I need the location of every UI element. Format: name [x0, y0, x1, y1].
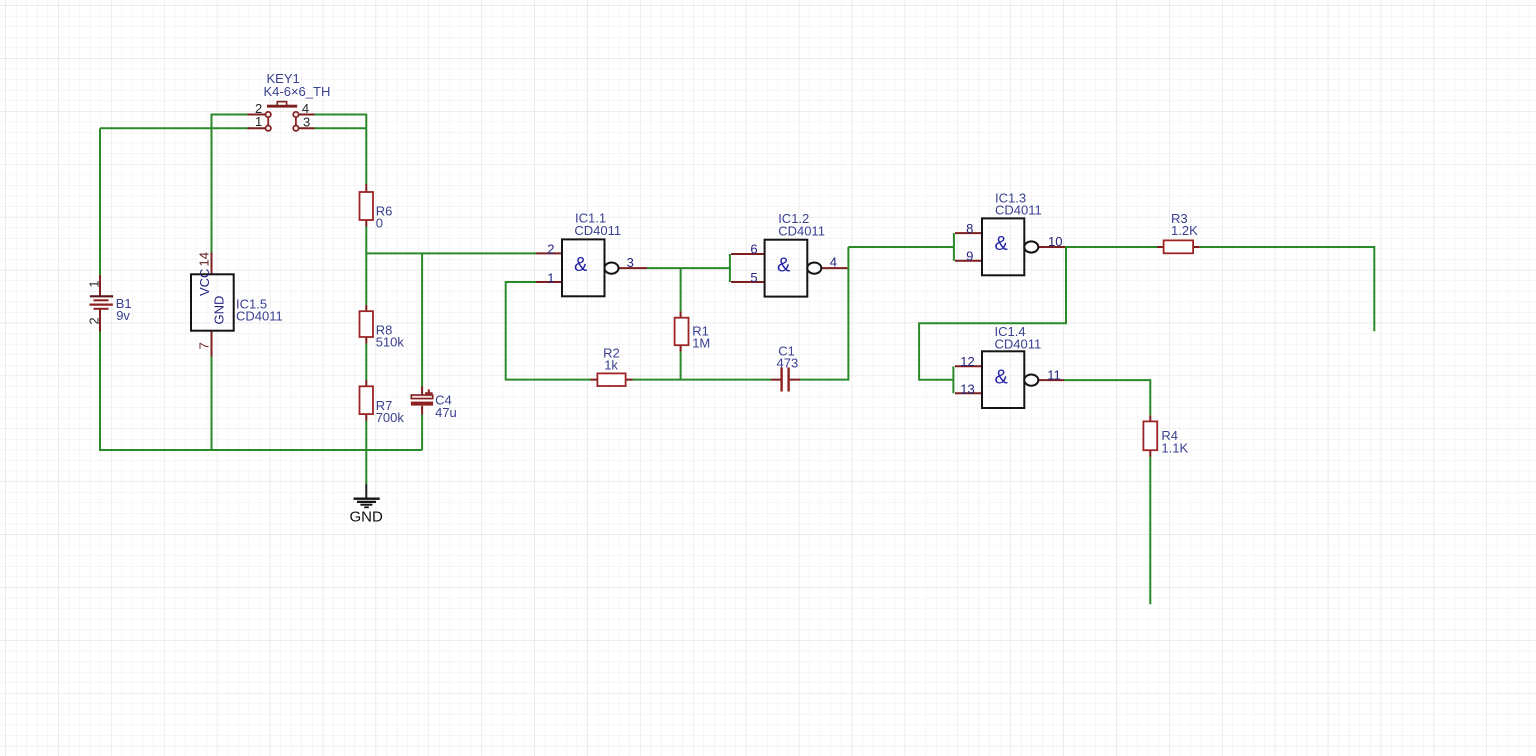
svg-text:CD4011: CD4011 [995, 203, 1042, 218]
KEY1 pole links [268, 117, 296, 125]
wire KEY1 pin2 riser [212, 115, 251, 129]
svg-text:0: 0 [376, 215, 383, 230]
svg-text:2: 2 [547, 242, 554, 257]
svg-text:1: 1 [87, 280, 102, 287]
NAND gate IC1.4 [953, 324, 1064, 408]
svg-text:1k: 1k [604, 358, 618, 373]
svg-text:CD4011: CD4011 [236, 309, 283, 324]
svg-text:473: 473 [777, 356, 799, 371]
svg-text:&: & [995, 366, 1009, 388]
pushbutton KEY1 [248, 71, 331, 131]
svg-text:8: 8 [966, 221, 973, 236]
wire R6 top feed [365, 128, 367, 184]
svg-text:13: 13 [960, 381, 974, 396]
wire IC1.5 pin7 to rail [211, 357, 213, 451]
svg-text:GND: GND [350, 509, 384, 526]
wire IC1.3 out to IC1.4 in [919, 247, 1066, 380]
svg-text:5: 5 [750, 270, 757, 285]
battery B1 [87, 275, 132, 332]
svg-text:1.2K: 1.2K [1171, 223, 1198, 238]
resistor R4 [1143, 415, 1188, 456]
NAND gate IC1.2 [730, 211, 848, 297]
KEY1 pin stubs [248, 115, 315, 129]
svg-text:700k: 700k [376, 410, 405, 425]
wire GND branch [365, 450, 367, 484]
wire R6 to node [365, 227, 367, 306]
svg-text:9: 9 [966, 249, 973, 264]
wire C4 branch [421, 253, 423, 450]
capacitor C1 [771, 344, 800, 392]
svg-text:2: 2 [87, 317, 102, 324]
svg-text:10: 10 [1048, 234, 1062, 249]
wire R4 to J1 [1149, 457, 1151, 605]
svg-text:GND: GND [212, 296, 227, 325]
KEY1 button bar [267, 105, 297, 108]
svg-text:&: & [995, 233, 1009, 255]
wire R2 to node [633, 379, 681, 381]
NAND gate IC1.3 [954, 190, 1065, 275]
wire R3 to LED column [1200, 247, 1375, 331]
svg-text:4: 4 [830, 255, 837, 270]
wire IC1.1 out to IC1.2 in [647, 267, 731, 269]
wire IC1.5 pin14 feed [211, 128, 213, 252]
wire battery bottom to ground rail [100, 332, 422, 451]
wire IC1.2 out to IC1.3 in [848, 246, 954, 248]
resistor R8 [360, 305, 405, 349]
svg-text:9v: 9v [116, 308, 130, 323]
svg-text:12: 12 [960, 354, 974, 369]
svg-text:K4-6×6_TH: K4-6×6_TH [264, 84, 331, 99]
svg-text:CD4011: CD4011 [574, 223, 621, 238]
output section D1 D2 LED1 LED2 R5 C2 J1 J2 [0, 0, 1, 1]
svg-text:14: 14 [197, 252, 212, 266]
svg-text:11: 11 [1047, 368, 1061, 383]
wire battery left rail [99, 128, 101, 275]
svg-text:&: & [574, 254, 588, 276]
resistor R6 [360, 184, 393, 230]
svg-text:CD4011: CD4011 [995, 336, 1042, 351]
watermark [0, 0, 1, 1]
svg-text:7: 7 [197, 342, 212, 349]
wire IC1.3 out to R3 [1065, 246, 1157, 248]
svg-text:1M: 1M [692, 336, 710, 351]
KEY1 contact circles [266, 112, 271, 117]
wire C1 to IC1.2 out column [800, 247, 848, 380]
wire IC1.4 out to R4 [1064, 380, 1150, 415]
junction dots [0, 0, 1, 1]
ground symbol GND [350, 484, 384, 526]
wire R8-R7 [365, 344, 367, 381]
wire KEY1 pin3 [314, 127, 366, 129]
resistor R7 [360, 380, 405, 425]
svg-text:6: 6 [750, 242, 757, 257]
svg-text:VCC: VCC [197, 269, 212, 296]
svg-text:CD4011: CD4011 [778, 223, 825, 238]
svg-text:1: 1 [547, 271, 554, 286]
capacitor C4 [411, 386, 457, 420]
IC1.5 power block [191, 252, 283, 356]
wire node to IC1.1 pin2 [366, 252, 536, 254]
resistor R3 [1157, 211, 1200, 253]
wire battery top to KEY1 [100, 127, 212, 129]
svg-text:1: 1 [255, 114, 262, 129]
resistor R2 [591, 346, 633, 386]
svg-text:1.1K: 1.1K [1161, 440, 1188, 455]
svg-text:3: 3 [627, 255, 634, 270]
svg-text:&: & [777, 254, 791, 276]
svg-text:510k: 510k [376, 334, 405, 349]
wire KEY1 pin1 [212, 127, 251, 129]
wire KEY1 pin4 to R6 column [314, 115, 366, 129]
wire R7 to rail [365, 421, 367, 451]
svg-text:47u: 47u [435, 405, 457, 420]
wire node to C1 [681, 379, 771, 381]
resistor R1 [675, 268, 711, 380]
wire IC1.1 pin1 feedback [506, 282, 591, 380]
NAND gate IC1.1 [536, 211, 647, 297]
svg-text:3: 3 [303, 114, 310, 129]
